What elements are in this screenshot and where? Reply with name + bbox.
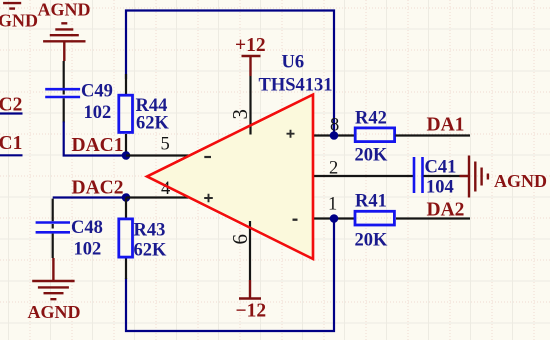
wire R41 to DA2: [396, 217, 470, 219]
svg-text:3: 3: [228, 109, 252, 120]
svg-text:62K: 62K: [136, 114, 170, 134]
capacitor C48: [36, 223, 70, 233]
svg-text:C41: C41: [425, 158, 457, 178]
svg-text:AGND: AGND: [494, 171, 547, 191]
op-amp U6 pin 4 (non-inverting input): [126, 196, 189, 198]
svg-text:AGND: AGND: [0, 11, 38, 31]
svg-text:5: 5: [161, 135, 170, 155]
power +12 symbol: [242, 56, 261, 76]
net stub C1: [0, 154, 23, 156]
capacitor C49 pin 1 (top, black): [63, 61, 65, 95]
svg-text:U6: U6: [282, 53, 305, 73]
svg-text:R42: R42: [355, 109, 387, 129]
op-amp U6 body: [147, 95, 313, 260]
junction node DAC2: [122, 193, 131, 202]
svg-text:AGND: AGND: [38, 0, 91, 20]
op-amp U6 pin 3 (V+): [249, 76, 251, 135]
svg-text:DAC1: DAC1: [72, 135, 124, 156]
input plus mark: [204, 194, 213, 203]
svg-text:62K: 62K: [134, 241, 168, 261]
op-amp U6 pin 8 (output +): [313, 134, 355, 136]
capacitor C41 pin 2 (right, black): [424, 175, 460, 177]
svg-text:104: 104: [426, 178, 454, 198]
resistor R44 pin 2 (bottom): [125, 134, 127, 156]
svg-text:DA1: DA1: [427, 115, 465, 136]
ground AGND top-left partial symbol: [3, 3, 21, 9]
capacitor C48 pin 1 (top, black): [52, 199, 54, 229]
op-amp U6 pin 6 (V-): [249, 221, 251, 280]
op-amp U6 pin 5 (inverting input): [126, 154, 189, 156]
svg-text:2: 2: [329, 159, 338, 179]
output minus mark: [293, 219, 298, 221]
svg-text:DAC2: DAC2: [72, 178, 124, 199]
wire R42 to DA1: [396, 134, 471, 136]
ground AGND symbol below C48: [32, 258, 74, 299]
svg-text:−12: −12: [236, 301, 267, 322]
wire C49 to net DAC1: [64, 122, 126, 156]
svg-text:C1: C1: [0, 133, 22, 154]
input minus mark: [204, 156, 211, 158]
op-amp U6 outline restroke: [147, 95, 313, 260]
svg-text:102: 102: [74, 240, 102, 260]
wire net DAC2: [53, 196, 126, 198]
power -12 symbol: [239, 280, 261, 299]
resistor R44: [119, 95, 133, 132]
svg-text:102: 102: [84, 103, 112, 123]
svg-text:DA2: DA2: [427, 200, 465, 221]
svg-text:1: 1: [328, 195, 337, 215]
svg-text:+12: +12: [235, 35, 266, 56]
resistor R43 pin 2 (bottom): [125, 259, 127, 280]
wire feedback bottom loop (pin1 node to R43 bottom): [126, 219, 334, 332]
op-amp U6 pin 1 (output -): [313, 217, 355, 219]
resistor R43: [119, 219, 133, 257]
junction node DAC1: [122, 151, 131, 160]
resistor R44 pin 1 (top): [125, 74, 127, 95]
svg-text:C49: C49: [81, 82, 113, 102]
svg-text:C48: C48: [71, 218, 103, 238]
svg-text:R41: R41: [355, 192, 387, 212]
resistor R41: [355, 211, 394, 225]
wire feedback top loop (output node to R44 top): [126, 11, 334, 136]
svg-text:4: 4: [161, 179, 170, 199]
junction node output - (pin 1): [330, 214, 339, 223]
capacitor C41: [414, 157, 423, 193]
svg-text:THS4131: THS4131: [259, 75, 333, 95]
capacitor C48 pin 2 (bottom, black): [52, 234, 54, 258]
svg-text:R43: R43: [134, 221, 166, 241]
capacitor C49 pin 2 (bottom, black): [63, 98, 65, 122]
resistor R42: [355, 128, 394, 142]
svg-text:6: 6: [228, 234, 252, 245]
ground AGND symbol right (rotated): [460, 156, 488, 198]
output plus mark: [287, 130, 295, 138]
svg-text:20K: 20K: [355, 146, 389, 166]
resistor R43 pin 1 (top): [125, 198, 127, 219]
junction node output + (pin 8): [330, 131, 339, 140]
op-amp U6 pin 2 (output): [313, 175, 414, 177]
net stub C2: [0, 112, 23, 114]
svg-text:C2: C2: [0, 95, 22, 116]
svg-text:AGND: AGND: [28, 302, 81, 322]
svg-text:20K: 20K: [355, 231, 389, 251]
ground AGND symbol above C49: [43, 23, 85, 61]
capacitor C49: [45, 89, 80, 97]
